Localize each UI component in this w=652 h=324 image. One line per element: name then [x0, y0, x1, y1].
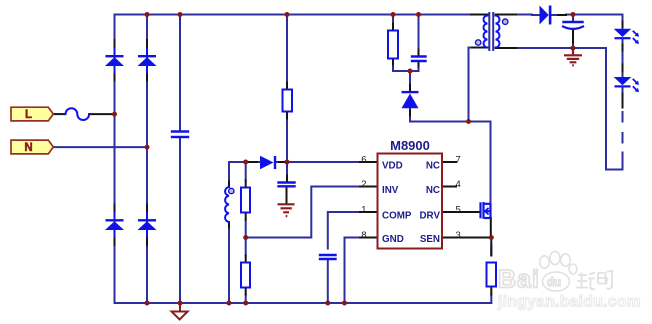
svg-text:SEN: SEN	[420, 234, 440, 245]
svg-text:8: 8	[361, 230, 366, 241]
svg-text:N: N	[24, 142, 32, 154]
svg-text:DRV: DRV	[419, 210, 440, 221]
svg-text:7: 7	[456, 155, 461, 166]
svg-text:du: du	[547, 277, 561, 289]
svg-text:NC: NC	[426, 160, 440, 171]
svg-text:NC: NC	[426, 185, 440, 196]
svg-text:5: 5	[456, 205, 461, 216]
svg-text:M8900: M8900	[390, 138, 430, 153]
svg-text:VDD: VDD	[382, 160, 403, 171]
svg-text:L: L	[25, 109, 32, 121]
svg-text:4: 4	[456, 179, 461, 190]
svg-text:6: 6	[361, 155, 366, 166]
svg-text:INV: INV	[382, 185, 399, 196]
svg-text:2: 2	[361, 179, 366, 190]
svg-text:1: 1	[361, 205, 366, 216]
svg-text:3: 3	[456, 230, 461, 241]
svg-text:GND: GND	[382, 234, 404, 245]
svg-text:jingyan.baidu.com: jingyan.baidu.com	[497, 294, 641, 311]
svg-text:Bai: Bai	[498, 266, 540, 294]
svg-text:COMP: COMP	[382, 210, 412, 221]
